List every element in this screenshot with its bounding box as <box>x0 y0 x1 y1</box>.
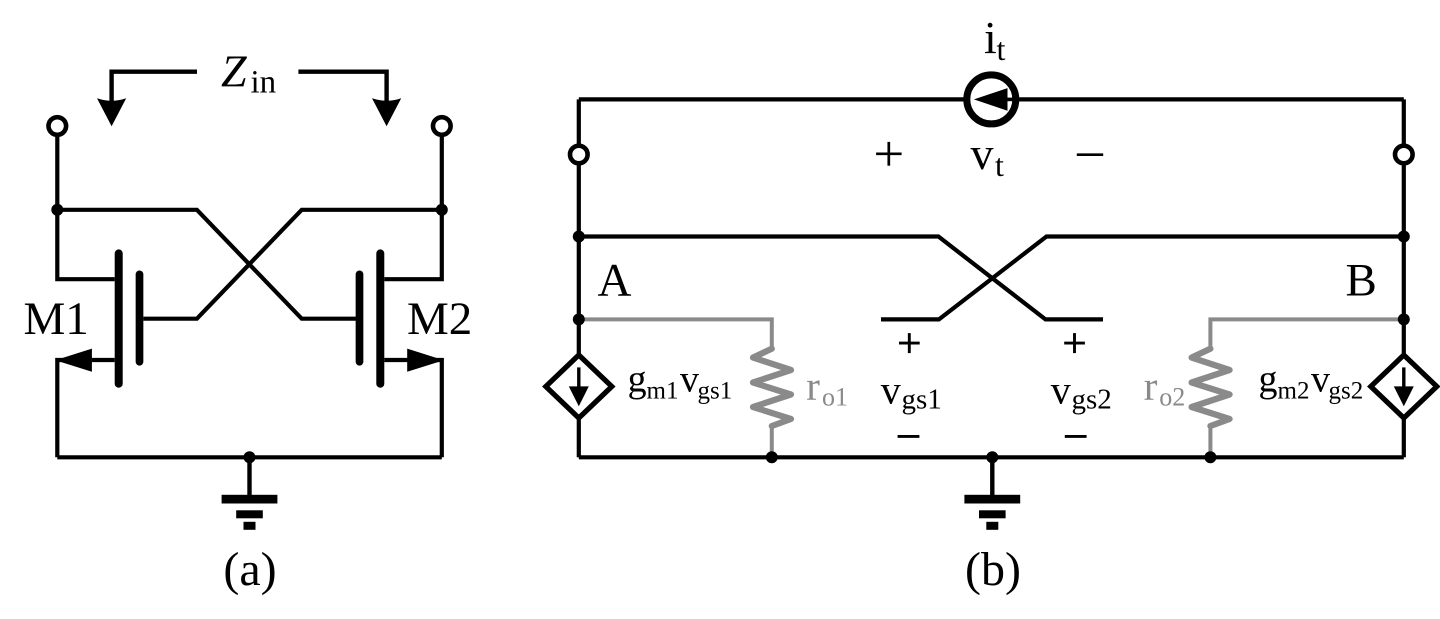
resistor ro2 <box>1192 349 1230 426</box>
wire gray left to ro1 <box>579 319 772 348</box>
node ro2 bottom <box>1204 451 1216 463</box>
svg-text:t: t <box>995 147 1004 183</box>
wire cross-couple left-drain to M2 gate <box>57 210 357 319</box>
wire right rail lower <box>1402 416 1406 457</box>
svg-text:M1: M1 <box>24 293 89 345</box>
svg-text:m2: m2 <box>1278 378 1310 405</box>
svg-text:v: v <box>881 368 901 413</box>
wire left terminal to drain of M1 <box>57 134 114 279</box>
wire right terminal to drain of M2 <box>384 134 442 279</box>
wire source M1 <box>57 360 114 457</box>
resistor ro1 <box>753 349 791 426</box>
svg-text:M2: M2 <box>407 293 472 345</box>
svg-text:B: B <box>1346 254 1377 306</box>
svg-text:A: A <box>598 255 632 307</box>
wire bottom rail (a) <box>57 455 442 459</box>
svg-text:Z: Z <box>221 46 247 97</box>
wire second rail right + diagonal to left gate stub <box>881 237 1404 320</box>
svg-text:gs2: gs2 <box>1072 384 1112 416</box>
svg-text:g: g <box>628 359 647 401</box>
Zin arrow left <box>112 72 197 104</box>
wire left rail lower <box>577 416 581 457</box>
minus vt <box>1077 153 1103 156</box>
svg-text:gs1: gs1 <box>902 384 942 416</box>
svg-text:(b): (b) <box>965 543 1021 596</box>
svg-text:m1: m1 <box>647 378 679 405</box>
ground (b) <box>964 457 1020 530</box>
svg-text:gs1: gs1 <box>698 378 733 405</box>
svg-text:gs2: gs2 <box>1329 378 1364 405</box>
node drain M2 <box>436 204 448 216</box>
svg-text:v: v <box>971 128 994 179</box>
svg-text:g: g <box>1259 359 1278 401</box>
svg-text:in: in <box>251 65 277 101</box>
wire right rail (b) <box>1402 99 1406 355</box>
wire ro2 bottom stub <box>1208 424 1212 457</box>
minus vgs1 <box>898 435 920 438</box>
wire second rail left + diagonal to right gate stub <box>579 237 1103 320</box>
svg-text:o2: o2 <box>1159 383 1185 412</box>
terminal left (a) <box>49 117 67 135</box>
wire gray right to ro2 <box>1210 319 1403 348</box>
wire ro1 bottom stub <box>770 424 774 457</box>
terminal right (b) <box>1395 146 1413 164</box>
plus vgs2 <box>1064 333 1085 353</box>
dependent source gm1vgs1 <box>546 355 612 418</box>
svg-text:t: t <box>997 31 1006 67</box>
svg-text:r: r <box>1144 363 1158 409</box>
Zin arrow right <box>298 72 386 104</box>
wire top rail (b) <box>579 97 1404 101</box>
dependent source gm2vgs2 <box>1371 355 1437 418</box>
svg-text:r: r <box>806 363 820 409</box>
wire source M2 <box>384 360 442 457</box>
svg-text:v: v <box>1051 368 1071 413</box>
node ground (b) <box>986 451 998 463</box>
minus vgs2 <box>1065 435 1087 438</box>
terminal right (a) <box>433 117 451 135</box>
svg-text:v: v <box>1311 359 1330 401</box>
transistor M2 <box>360 253 381 383</box>
svg-text:o1: o1 <box>822 383 848 412</box>
node A rail <box>573 231 585 243</box>
node B rail <box>1398 231 1410 243</box>
node source junction (a) <box>244 451 256 463</box>
current source it <box>967 75 1016 124</box>
wire left rail (b) <box>577 99 581 355</box>
svg-text:(a): (a) <box>223 543 276 596</box>
wire bottom rail (b) <box>579 455 1404 459</box>
plus vt <box>876 142 902 166</box>
plus vgs1 <box>899 333 920 353</box>
terminal left (b) <box>570 146 588 164</box>
node gray left <box>573 313 585 325</box>
transistor M1 <box>119 253 140 383</box>
node drain M1 <box>51 204 63 216</box>
node ro1 bottom <box>766 451 778 463</box>
svg-text:v: v <box>680 359 699 401</box>
svg-text:i: i <box>984 12 997 63</box>
wire cross-couple right-drain to M1 gate <box>143 210 442 319</box>
node gray right <box>1398 313 1410 325</box>
ground (a) <box>222 457 278 530</box>
